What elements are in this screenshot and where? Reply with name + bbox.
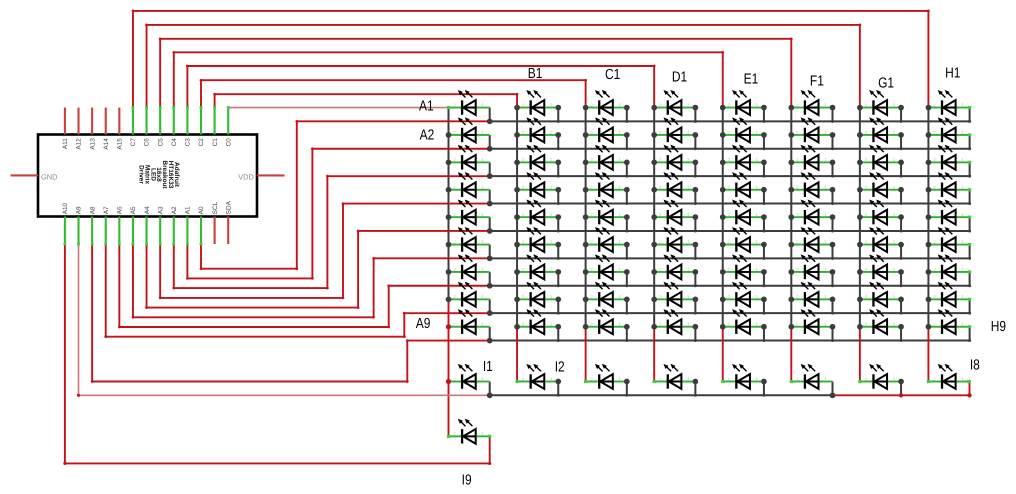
LED H1	[928, 90, 969, 115]
pin GND (left leg)	[11, 174, 39, 176]
LED A7	[449, 254, 490, 279]
wire: column E cathode bus	[722, 108, 724, 327]
svg-text:SDA: SDA	[225, 200, 232, 214]
svg-text:A12: A12	[76, 138, 83, 150]
LED G3	[860, 145, 901, 170]
pin A5 (bottom leg)	[132, 217, 134, 245]
LED G5	[860, 199, 901, 224]
LED D8	[654, 282, 695, 307]
svg-text:D1: D1	[672, 70, 687, 86]
LED A8	[449, 282, 490, 307]
svg-text:C7: C7	[130, 138, 137, 147]
LED E3	[723, 145, 764, 170]
LED D4	[654, 172, 695, 197]
LED B5	[517, 199, 558, 224]
pin C6 (top leg)	[146, 108, 148, 135]
LED D7	[654, 254, 695, 279]
LED F2	[791, 117, 832, 142]
LED G7	[860, 254, 901, 279]
LED H7	[928, 254, 969, 279]
wire: column G cathode bus	[859, 108, 861, 327]
pin A6 (bottom leg)	[118, 217, 120, 245]
wire: row 6 anode bus	[490, 245, 970, 259]
pin VDD (right leg)	[257, 174, 285, 176]
LED H8	[928, 282, 969, 307]
LED B3	[517, 145, 558, 170]
LED H4	[928, 172, 969, 197]
LED E4	[723, 172, 764, 197]
svg-text:G1: G1	[878, 76, 894, 92]
svg-text:C0: C0	[225, 138, 232, 147]
svg-text:A6: A6	[117, 206, 124, 214]
wire: row 8 anode bus	[490, 299, 970, 313]
LED D3	[654, 145, 695, 170]
LED D5	[654, 199, 695, 224]
svg-text:A0: A0	[198, 206, 205, 214]
wire: pin C1 to column B1 top	[215, 94, 517, 107]
pin SDA (bottom leg)	[227, 217, 229, 245]
wire: pin C6 to column G1 top	[147, 25, 860, 108]
LED F9	[791, 309, 832, 334]
pin A1 (bottom leg)	[186, 217, 188, 245]
LED G8	[860, 282, 901, 307]
LED I8	[928, 364, 969, 389]
svg-text:C3: C3	[185, 138, 192, 147]
svg-text:A1: A1	[185, 206, 192, 214]
LED E7	[723, 254, 764, 279]
pin A2 (bottom leg)	[173, 217, 175, 245]
LED B1	[517, 90, 558, 115]
LED B7	[517, 254, 558, 279]
LED G9	[860, 309, 901, 334]
LED D9	[654, 309, 695, 334]
wire: column A cathode bus	[448, 108, 450, 300]
wire: pin A10 to I9 anode	[65, 244, 490, 463]
svg-text:A3: A3	[157, 206, 164, 214]
wire: column B red extension to I-row	[516, 327, 518, 382]
LED C1	[586, 90, 627, 115]
LED I2	[517, 364, 558, 389]
svg-text:SCL: SCL	[212, 201, 219, 214]
wire: pin A6 to row anode line	[119, 244, 489, 327]
LED B6	[517, 227, 558, 252]
pin C5 (top leg)	[159, 108, 161, 135]
LED E2	[723, 117, 764, 142]
LED C7	[586, 254, 627, 279]
wire: I7 anode elbow	[900, 382, 902, 396]
LED A4	[449, 172, 490, 197]
LED B4	[517, 172, 558, 197]
LED E5	[723, 199, 764, 224]
wire: column C cathode bus	[585, 108, 587, 327]
LED B9	[517, 309, 558, 334]
svg-text:F1: F1	[810, 73, 824, 89]
LED F6	[791, 227, 832, 252]
LED F4	[791, 172, 832, 197]
svg-text:C4: C4	[171, 138, 178, 147]
wire: pin A9 to I-row anode line (pale)	[79, 244, 490, 395]
LED A9	[449, 309, 490, 334]
LED F7	[791, 254, 832, 279]
LED C2	[586, 117, 627, 142]
svg-text:A2: A2	[420, 127, 435, 143]
svg-text:A1: A1	[419, 98, 434, 114]
wire: row 7 anode bus	[490, 272, 970, 286]
svg-text:A15: A15	[117, 138, 124, 150]
LED C9	[586, 309, 627, 334]
wire: row 2 anode bus	[490, 135, 970, 149]
LED I3	[586, 364, 627, 389]
svg-text:VDD: VDD	[238, 172, 254, 181]
pin C2 (top leg)	[200, 108, 202, 135]
svg-text:I8: I8	[970, 358, 980, 374]
LED C4	[586, 172, 627, 197]
LED A1	[449, 90, 490, 115]
svg-text:A9: A9	[416, 316, 431, 332]
pin C7 (top leg)	[132, 108, 134, 135]
svg-text:H1: H1	[945, 66, 960, 82]
svg-text:I2: I2	[555, 359, 565, 375]
pin A12 (top leg)	[77, 108, 79, 135]
wire: column D red extension to I-row	[653, 327, 655, 382]
wire: I-row anode bus (dark part I1-I6)	[490, 382, 833, 396]
LED C6	[586, 227, 627, 252]
LED I5	[723, 364, 764, 389]
svg-text:A11: A11	[62, 138, 69, 149]
wire: pin A8 to row 9 anode line	[92, 244, 490, 382]
LED G6	[860, 227, 901, 252]
wire: row 9 anode bus	[490, 327, 970, 341]
pin A13 (top leg)	[91, 108, 93, 135]
pin A8 (bottom leg)	[91, 217, 93, 245]
svg-text:I9: I9	[462, 473, 472, 489]
LED C5	[586, 199, 627, 224]
svg-text:A13: A13	[89, 138, 96, 150]
LED H6	[928, 227, 969, 252]
LED I7	[860, 364, 901, 389]
LED D1	[654, 90, 695, 115]
pin A7 (bottom leg)	[105, 217, 107, 245]
LED H2	[928, 117, 969, 142]
pin C3 (top leg)	[186, 108, 188, 135]
pin C0 (top leg)	[227, 108, 229, 135]
LED A3	[449, 145, 490, 170]
LED C8	[586, 282, 627, 307]
svg-text:Driver: Driver	[137, 165, 144, 184]
LED A6	[449, 227, 490, 252]
pin A0 (bottom leg)	[200, 217, 202, 245]
pin A15 (top leg)	[118, 108, 120, 135]
wire: column F red extension to I-row	[790, 327, 792, 382]
pin A3 (bottom leg)	[159, 217, 161, 245]
wire: pin C7 to column H1 top	[133, 11, 928, 108]
svg-text:A5: A5	[130, 206, 137, 214]
wire: column C red extension to I-row	[585, 327, 587, 382]
wire: column H red extension to I-row	[927, 327, 929, 382]
wire: pin C0 to A1 cathode (pale)	[228, 107, 448, 109]
LED F8	[791, 282, 832, 307]
wire: column A red extension to I1/I9	[448, 299, 450, 436]
wire: row 3 anode bus	[490, 162, 970, 176]
LED A5	[449, 199, 490, 224]
svg-text:C1: C1	[605, 67, 620, 83]
LED H9	[928, 309, 969, 334]
svg-text:A14: A14	[103, 138, 110, 150]
LED E8	[723, 282, 764, 307]
svg-text:I1: I1	[483, 359, 493, 375]
wire: pin A3 to row anode line	[160, 204, 490, 298]
pin A9 (bottom leg)	[77, 217, 79, 245]
LED B8	[517, 282, 558, 307]
wire: row 4 anode bus	[490, 190, 970, 204]
pin A11 (top leg)	[64, 108, 66, 135]
svg-text:A4: A4	[144, 206, 151, 214]
svg-text:H9: H9	[991, 319, 1006, 335]
wire: I-row anode bus (red part I6-I8)	[833, 382, 970, 396]
wire: pin A1 to row anode line	[187, 149, 489, 279]
svg-text:A2: A2	[171, 206, 178, 214]
wire: column F cathode bus	[790, 108, 792, 327]
junction dots: cathode columns	[446, 132, 452, 138]
wire: pin A5 to row anode line	[133, 244, 490, 317]
LED C3	[586, 145, 627, 170]
LED E6	[723, 227, 764, 252]
LED F5	[791, 199, 832, 224]
op-amp/driver IC U1: Adafruit HT16K33 Breakout 16x8 LED Matrix Driver	[38, 135, 257, 217]
pin A14 (top leg)	[105, 108, 107, 135]
svg-text:A7: A7	[103, 206, 110, 214]
connection squares: wire endpoints	[447, 106, 450, 109]
junction dots: anode elbows	[487, 119, 493, 125]
LED F3	[791, 145, 832, 170]
svg-text:C1: C1	[212, 138, 219, 147]
wire: pin C4 to column E1 top	[174, 52, 723, 107]
LED E9	[723, 309, 764, 334]
wire: pin A7 to row anode line	[106, 244, 490, 337]
wire: column H cathode bus	[927, 108, 929, 327]
svg-text:A9: A9	[76, 206, 83, 214]
LED B2	[517, 117, 558, 142]
pin A10 (bottom leg)	[64, 217, 66, 245]
LED F1	[791, 90, 832, 115]
svg-text:A8: A8	[89, 206, 96, 214]
wire: pin C3 to column D1 top	[187, 66, 654, 108]
LED H5	[928, 199, 969, 224]
pin C4 (top leg)	[173, 108, 175, 135]
wire: column D cathode bus	[653, 108, 655, 327]
wire: pin A4 to row anode line	[147, 231, 490, 308]
LED I1	[449, 364, 490, 389]
LED G1	[860, 90, 901, 115]
wire: pin C5 to column F1 top	[160, 39, 791, 108]
wire: column B cathode bus	[516, 108, 518, 327]
svg-text:GND: GND	[41, 172, 57, 181]
pin C1 (top leg)	[214, 108, 216, 135]
svg-text:E1: E1	[744, 72, 759, 88]
LED A2	[449, 117, 490, 142]
pin SCL (bottom leg)	[214, 217, 216, 245]
LED D2	[654, 117, 695, 142]
pin A4 (bottom leg)	[146, 217, 148, 245]
LED G4	[860, 172, 901, 197]
svg-text:C5: C5	[157, 138, 164, 147]
wire: column E red extension to I-row	[722, 327, 724, 382]
svg-text:C6: C6	[144, 138, 151, 147]
junction dots: I-row	[446, 379, 451, 384]
svg-text:C2: C2	[198, 138, 205, 147]
LED D6	[654, 227, 695, 252]
LED I4	[654, 364, 695, 389]
LED I9	[449, 419, 490, 444]
wire: row 5 anode bus	[490, 217, 970, 231]
LED I6	[791, 364, 832, 389]
svg-text:B1: B1	[528, 66, 543, 82]
wire: pin A0 to row anode line	[201, 121, 490, 268]
wire: pin C2 to column C1 top	[201, 80, 586, 107]
svg-text:A10: A10	[62, 202, 69, 214]
wire: row 1 anode bus	[490, 108, 970, 122]
LED E1	[723, 90, 764, 115]
wire: column G red extension to I-row	[859, 327, 861, 382]
LED G2	[860, 117, 901, 142]
wire: pin A2 to row anode line	[174, 176, 490, 288]
LED H3	[928, 145, 969, 170]
bend dots: red wires	[132, 10, 135, 13]
